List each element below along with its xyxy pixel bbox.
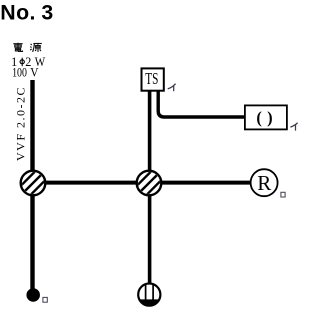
svg-text:No.: No. [0,1,36,25]
svg-text:100: 100 [12,66,27,80]
svg-text:3: 3 [41,1,53,25]
svg-text:V: V [30,66,38,80]
svg-text:( ): ( ) [256,108,273,127]
svg-text:VVF 2.0-2C: VVF 2.0-2C [14,86,28,161]
svg-text:R: R [257,171,271,195]
svg-text:TS: TS [145,69,158,88]
